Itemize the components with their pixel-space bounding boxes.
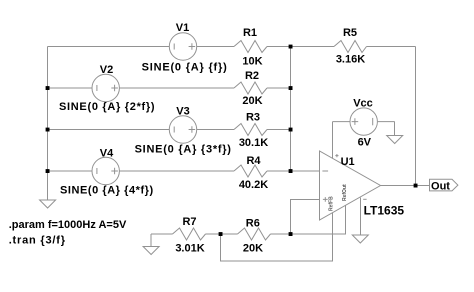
wire row4: [48, 170, 235, 172]
svg-text:SINE(0 {A} {f}): SINE(0 {A} {f}): [142, 62, 228, 74]
svg-text:Vcc: Vcc: [353, 98, 373, 110]
node junction row4: [289, 169, 293, 173]
ground vcc: [387, 136, 403, 144]
svg-text:LT1635: LT1635: [364, 204, 405, 218]
resistor R6: [238, 217, 271, 254]
svg-text:.param f=1000Hz A=5V: .param f=1000Hz A=5V: [9, 219, 127, 231]
resistor R1: [234, 27, 267, 67]
ground R7: [143, 247, 159, 255]
svg-text:V4: V4: [100, 148, 114, 160]
spice directive tran: [9, 235, 66, 247]
svg-text:RefFB: RefFB: [328, 196, 334, 211]
wire R6 to RefOut: [271, 205, 346, 234]
wire right bus: [415, 47, 417, 186]
wire noninverting input: [291, 200, 320, 235]
wire R7 to R6: [206, 233, 238, 235]
wire row3 right: [267, 129, 291, 131]
ground opamp vminus: [352, 235, 368, 243]
svg-text:40.2K: 40.2K: [239, 179, 268, 191]
resistor R5: [334, 27, 367, 65]
wire row2 right: [267, 87, 291, 89]
node junction row3: [289, 128, 293, 132]
node junction leftbus row2: [46, 86, 50, 90]
resistor R4: [234, 155, 268, 191]
spice directive param: [9, 219, 127, 231]
voltage source V1: [142, 22, 228, 74]
svg-text:U1: U1: [341, 156, 355, 168]
wire row1 right: [367, 46, 416, 48]
resistor R2: [234, 70, 267, 107]
voltage source V3: [135, 105, 232, 155]
voltage source V2: [59, 64, 155, 113]
wire row3: [48, 129, 235, 131]
wire R7 left to ground: [150, 234, 152, 247]
voltage source Vcc: [333, 98, 395, 160]
svg-text:3.01K: 3.01K: [175, 243, 204, 255]
svg-text:.tran {3/f}: .tran {3/f}: [9, 235, 66, 247]
wire row2: [48, 87, 235, 89]
svg-text:20K: 20K: [242, 95, 262, 107]
node junction row1: [289, 45, 293, 49]
svg-text:RefOut: RefOut: [342, 184, 348, 201]
wire row4 right: [267, 170, 320, 172]
svg-text:20K: 20K: [243, 243, 263, 255]
node junction R6 plus: [289, 232, 293, 236]
svg-text:R3: R3: [246, 112, 260, 124]
svg-text:6V: 6V: [358, 137, 372, 149]
voltage source V4: [60, 148, 154, 197]
svg-text:Out: Out: [431, 180, 450, 192]
node Out port: [430, 179, 458, 192]
resistor R3: [234, 112, 268, 150]
svg-text:V1: V1: [176, 22, 189, 34]
node junction leftbus row4: [46, 169, 50, 173]
wire summing bus: [290, 47, 292, 172]
svg-text:SINE(0 {A} {2*f}): SINE(0 {A} {2*f}): [59, 101, 155, 113]
wire opamp output: [381, 185, 430, 187]
wire feedback to RefFB: [221, 212, 333, 261]
svg-text:R5: R5: [343, 27, 357, 39]
wire R7 row: [151, 233, 173, 235]
svg-text:R2: R2: [245, 70, 259, 82]
svg-text:30.1K: 30.1K: [239, 137, 268, 149]
node junction R7R6: [219, 232, 223, 236]
ground left bus: [40, 200, 56, 208]
svg-text:R4: R4: [246, 155, 261, 167]
svg-text:SINE(0 {A} {3*f}): SINE(0 {A} {3*f}): [135, 144, 232, 156]
svg-text:V2: V2: [100, 64, 113, 76]
node junction row2: [289, 86, 293, 90]
svg-text:V3: V3: [176, 105, 189, 117]
svg-text:10K: 10K: [242, 55, 262, 67]
op-amp U1: [320, 151, 405, 235]
resistor R7: [173, 216, 206, 254]
wire left bus: [47, 47, 49, 201]
wire row1 mid: [267, 46, 334, 48]
svg-text:3.16K: 3.16K: [336, 53, 365, 65]
svg-text:R7: R7: [182, 216, 196, 228]
node junction output: [414, 184, 418, 188]
node junction leftbus row3: [46, 128, 50, 132]
wire row1 left: [48, 46, 235, 48]
svg-text:R1: R1: [243, 27, 257, 39]
svg-text:R6: R6: [246, 217, 260, 229]
svg-text:SINE(0 {A} {4*f}): SINE(0 {A} {4*f}): [60, 184, 154, 196]
